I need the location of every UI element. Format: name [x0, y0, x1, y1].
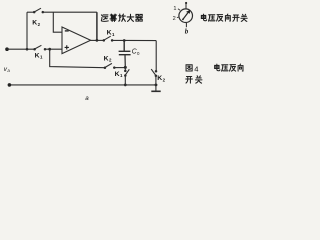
node rail junction right [155, 84, 158, 87]
wire: top rail to feedback corner [43, 11, 97, 13]
svg-text:K: K [157, 75, 162, 82]
svg-text:K: K [104, 55, 109, 62]
wire: right vertical from upper rail [155, 41, 157, 71]
tick to terminal 2 [177, 16, 179, 19]
switch K2 (top-left) contacts [33, 11, 36, 14]
switch K2 (bottom right) contacts [155, 70, 158, 73]
op-amp plus sign [65, 45, 69, 49]
capacitor C0 plates [119, 50, 131, 52]
caption line 2: 开关 [186, 76, 202, 83]
wire: down through rail to terminal bar [155, 76, 157, 91]
switch K2 (mid) lever [105, 63, 112, 67]
capacitor C0 top lead [123, 41, 125, 51]
capacitor C0 bottom lead [124, 55, 126, 68]
node output/feedback junction [96, 39, 99, 42]
wire: inverting input L-drop [53, 12, 62, 32]
wire: top rail left segment [27, 11, 34, 13]
svg-text:K: K [35, 52, 40, 59]
switch K1 (input) contacts [33, 48, 36, 51]
input terminal node (top-left input) [5, 47, 9, 51]
svg-text:1: 1 [40, 55, 43, 60]
wire: down to rail [124, 76, 126, 85]
wire: input to switch K1 [7, 48, 34, 50]
node rail junction mid [124, 84, 127, 87]
needle arrowhead [186, 10, 190, 14]
switch K2 lever [34, 8, 41, 12]
caption line 1: 图4 电压反向 [186, 65, 192, 71]
label 运算放大器 [101, 14, 142, 21]
switch K1 lever [35, 45, 42, 49]
wire: upper right rail to right vertical [112, 39, 156, 41]
switch K1 (upper right) contacts [103, 39, 106, 42]
op-amp U1 triangle [62, 27, 91, 54]
wire: to capacitor bottom node [114, 67, 125, 69]
svg-text:b: b [185, 28, 189, 36]
switch K2 (mid) contacts [104, 66, 107, 69]
svg-text:a: a [7, 68, 10, 73]
terminal node bottom-left [8, 83, 12, 87]
svg-text:2: 2 [109, 58, 112, 63]
tick to terminal 1 [178, 9, 180, 10]
svg-text:2: 2 [163, 77, 166, 82]
wire: vertical riser x=27 [26, 12, 28, 49]
wire: lower-left branch [50, 49, 105, 67]
needle [183, 13, 188, 20]
switch K2 (bottom right) lever [151, 69, 156, 76]
annotation 电压反向开关 [201, 14, 247, 21]
svg-text:2: 2 [38, 22, 41, 27]
switch K1 (bottom mid) upper contact [124, 67, 126, 70]
svg-text:a: a [85, 95, 89, 102]
meter circle [179, 9, 193, 23]
node junction at x=27 [26, 48, 29, 51]
node capacitor bottom junction [124, 66, 127, 69]
node junction below + input [48, 48, 51, 51]
wire: feedback vertical to output node [96, 12, 98, 40]
switch K1 (upper right) lever [104, 36, 111, 40]
svg-text:K: K [107, 30, 112, 37]
svg-text:K: K [115, 71, 120, 78]
svg-text:1: 1 [173, 6, 176, 12]
svg-text:0: 0 [137, 51, 140, 56]
switch K1 (bottom mid) lever [125, 69, 129, 75]
svg-text:1: 1 [112, 32, 115, 37]
wire: op-amp output [91, 39, 104, 41]
bottom rail a [9, 84, 157, 86]
svg-text:K: K [32, 20, 37, 27]
bottom lead [185, 22, 187, 27]
svg-text:1: 1 [120, 73, 123, 78]
terminal bar b [151, 90, 160, 92]
node capacitor top junction [123, 39, 126, 42]
wire: to non-inverting input [45, 48, 62, 50]
svg-text:4: 4 [194, 64, 198, 73]
op-amp minus sign [65, 30, 69, 32]
svg-text:2: 2 [173, 16, 176, 22]
top lead [185, 3, 187, 9]
